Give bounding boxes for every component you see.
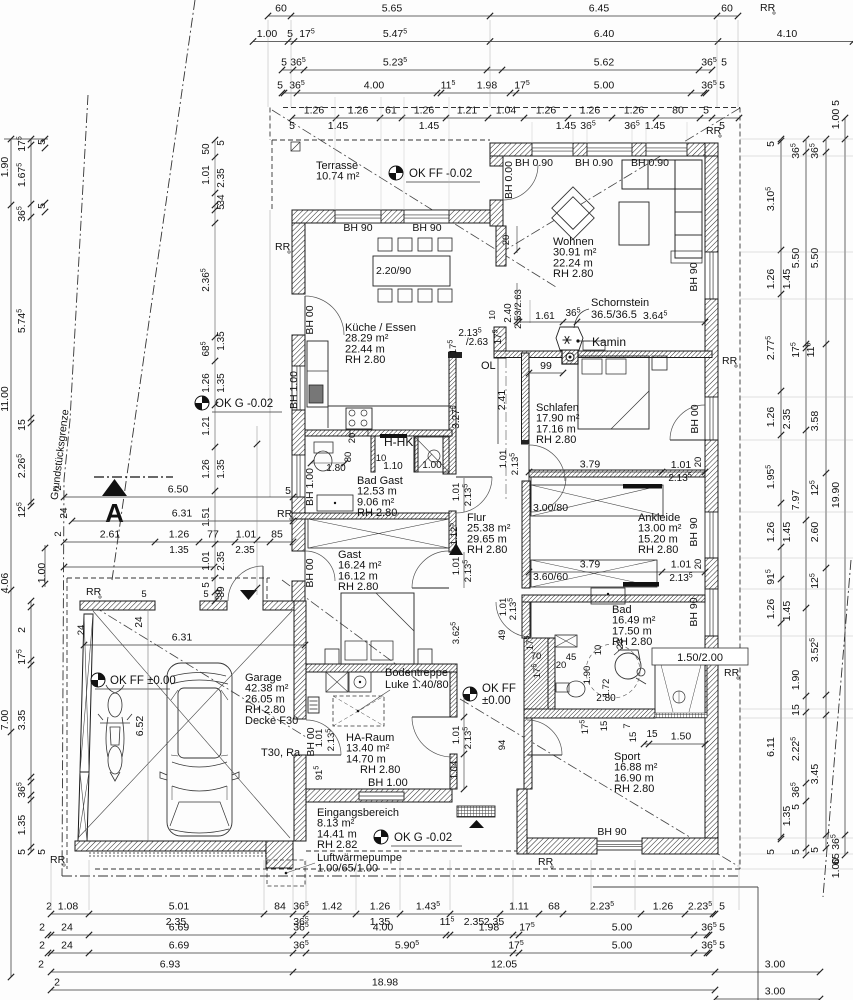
svg-text:24: 24: [59, 507, 70, 519]
svg-text:36.5/36.5: 36.5/36.5: [591, 309, 637, 321]
svg-text:3.58: 3.58: [809, 411, 821, 432]
svg-text:7.00: 7.00: [0, 710, 11, 731]
svg-text:3.35: 3.35: [16, 710, 28, 731]
svg-text:6.31: 6.31: [172, 632, 193, 644]
svg-text:28: 28: [615, 639, 626, 650]
svg-text:1.26: 1.26: [765, 599, 777, 620]
svg-text:6.40: 6.40: [594, 28, 615, 40]
svg-text:1.45: 1.45: [328, 120, 349, 132]
svg-text:1.00: 1.00: [257, 28, 278, 40]
svg-text:OK G -0.02: OK G -0.02: [394, 832, 452, 844]
svg-text:11.00: 11.00: [0, 386, 11, 412]
svg-text:80: 80: [343, 452, 354, 463]
svg-text:RH 2.80: RH 2.80: [338, 581, 378, 593]
svg-text:5: 5: [203, 589, 208, 600]
svg-text:1.21: 1.21: [201, 416, 212, 436]
svg-text:5: 5: [16, 849, 28, 855]
svg-text:20: 20: [693, 559, 704, 570]
svg-text:60: 60: [721, 3, 733, 15]
svg-text:1.42: 1.42: [322, 901, 343, 913]
svg-text:1.35: 1.35: [16, 815, 28, 836]
svg-text:19.90: 19.90: [830, 482, 842, 508]
svg-text:20: 20: [693, 457, 704, 468]
svg-text:1.45: 1.45: [781, 522, 793, 543]
svg-text:61: 61: [385, 105, 397, 117]
svg-text:1.21: 1.21: [457, 105, 478, 117]
svg-text:2: 2: [53, 531, 64, 536]
svg-text:1.26: 1.26: [765, 522, 777, 543]
svg-text:5: 5: [216, 140, 227, 146]
svg-text:5: 5: [287, 28, 293, 40]
svg-text:1.26: 1.26: [653, 901, 674, 913]
svg-text:1.04: 1.04: [449, 761, 460, 780]
svg-text:5: 5: [830, 100, 842, 106]
svg-text:68: 68: [548, 901, 560, 913]
svg-text:1.26: 1.26: [201, 459, 212, 479]
svg-text:6.69: 6.69: [169, 922, 190, 934]
svg-text:1.00: 1.00: [830, 109, 842, 130]
svg-text:5: 5: [721, 57, 727, 69]
svg-text:10.74 m²: 10.74 m²: [316, 171, 360, 183]
svg-text:20: 20: [501, 235, 512, 246]
svg-text:BH 00: BH 00: [689, 404, 701, 433]
svg-text:RH 2.82: RH 2.82: [317, 839, 357, 851]
svg-text:3.00/80: 3.00/80: [533, 502, 568, 514]
svg-text:3.79: 3.79: [580, 559, 601, 571]
svg-text:5: 5: [809, 847, 821, 853]
svg-text:2.60: 2.60: [809, 522, 821, 543]
svg-text:24: 24: [61, 940, 73, 952]
svg-text:2.35: 2.35: [781, 409, 793, 430]
svg-text:20: 20: [556, 660, 567, 671]
svg-text:4.00: 4.00: [373, 922, 394, 934]
svg-text:1.45: 1.45: [419, 120, 440, 132]
svg-text:3.00: 3.00: [765, 986, 786, 998]
svg-text:1.90: 1.90: [0, 157, 11, 178]
svg-text:BH 90: BH 90: [597, 826, 626, 838]
svg-text:77: 77: [207, 529, 219, 541]
svg-text:1.90: 1.90: [790, 670, 802, 691]
svg-text:50: 50: [201, 143, 212, 155]
svg-text:60: 60: [275, 3, 287, 15]
svg-text:1.35: 1.35: [216, 459, 227, 479]
svg-text:10: 10: [593, 645, 604, 656]
svg-text:1.00/65/1.00: 1.00/65/1.00: [317, 863, 378, 875]
svg-text:2.35: 2.35: [216, 551, 227, 571]
svg-text:1.35: 1.35: [169, 545, 189, 556]
svg-text:1.08: 1.08: [58, 901, 79, 913]
svg-text:OK G -0.02: OK G -0.02: [215, 398, 273, 410]
svg-text:15: 15: [16, 419, 28, 431]
svg-text:6.69: 6.69: [169, 940, 190, 952]
svg-text:1.26: 1.26: [765, 269, 777, 290]
svg-text:6.93: 6.93: [160, 959, 181, 971]
svg-text:5: 5: [719, 80, 725, 92]
svg-text:1.01: 1.01: [671, 559, 692, 571]
svg-text:5: 5: [216, 204, 227, 210]
svg-text:5: 5: [719, 901, 725, 913]
svg-text:2.80: 2.80: [596, 693, 616, 704]
svg-text:5.50: 5.50: [790, 248, 802, 269]
svg-text:1.11: 1.11: [509, 901, 529, 913]
svg-text:6.52: 6.52: [134, 716, 146, 737]
svg-text:5.00: 5.00: [612, 922, 633, 934]
svg-text:1.01: 1.01: [201, 551, 212, 571]
svg-text:5.50: 5.50: [809, 248, 821, 269]
svg-text:5: 5: [719, 940, 725, 952]
svg-text:1.00: 1.00: [36, 563, 48, 584]
svg-text:OK FF: OK FF: [482, 683, 516, 695]
svg-text:BH 1.00: BH 1.00: [304, 468, 316, 506]
svg-text:1.04: 1.04: [496, 105, 517, 117]
svg-text:BH 90: BH 90: [688, 262, 700, 291]
svg-text:A: A: [105, 498, 124, 528]
svg-text:1.35: 1.35: [216, 373, 227, 393]
svg-text:1.61: 1.61: [535, 311, 555, 322]
svg-text:Kamin: Kamin: [592, 335, 626, 349]
svg-text:1.01: 1.01: [236, 529, 257, 541]
svg-text:5.65: 5.65: [382, 3, 403, 15]
svg-text:70: 70: [531, 651, 542, 662]
svg-text:1.50: 1.50: [671, 731, 692, 743]
svg-text:2.61: 2.61: [100, 529, 121, 541]
svg-text:1.26: 1.26: [414, 105, 435, 117]
svg-text:5: 5: [277, 80, 283, 92]
svg-text:49: 49: [497, 630, 508, 641]
svg-text:3.00: 3.00: [765, 959, 786, 971]
svg-text:/2.63: /2.63: [466, 337, 489, 348]
svg-text:20: 20: [347, 433, 358, 444]
svg-text:5: 5: [201, 582, 212, 588]
svg-text:1.26: 1.26: [348, 105, 369, 117]
svg-text:RH 2.80: RH 2.80: [553, 268, 593, 280]
svg-text:RH 2.80: RH 2.80: [467, 544, 507, 556]
svg-text:24: 24: [61, 922, 73, 934]
svg-text:H-HK: H-HK: [384, 435, 413, 449]
svg-text:5: 5: [281, 57, 287, 69]
svg-text:1.35: 1.35: [216, 331, 227, 351]
svg-text:Decke F30: Decke F30: [245, 715, 298, 727]
svg-text:1.90: 1.90: [582, 666, 593, 685]
svg-text:Luke 1.40/80: Luke 1.40/80: [385, 679, 449, 691]
svg-text:5: 5: [765, 141, 777, 147]
svg-text:2: 2: [53, 485, 64, 490]
svg-text:7: 7: [622, 723, 633, 728]
svg-text:1.26: 1.26: [624, 105, 645, 117]
svg-text:1.01: 1.01: [451, 483, 462, 502]
svg-text:RH 2.80: RH 2.80: [360, 764, 400, 776]
svg-text:4.06: 4.06: [0, 573, 11, 594]
svg-text:1.26: 1.26: [304, 105, 325, 117]
svg-text:Bodentreppe: Bodentreppe: [385, 667, 448, 679]
svg-text:BH 0.90: BH 0.90: [515, 157, 553, 169]
svg-text:1.26: 1.26: [370, 901, 391, 913]
svg-text:OK FF -0.02: OK FF -0.02: [409, 168, 472, 180]
svg-text:1.01: 1.01: [201, 165, 212, 185]
svg-text:1.01: 1.01: [451, 557, 462, 576]
svg-text:18.98: 18.98: [372, 977, 398, 989]
svg-text:1.26: 1.26: [536, 105, 557, 117]
svg-text:10: 10: [487, 310, 497, 320]
svg-text:99: 99: [540, 360, 552, 372]
svg-text:94: 94: [497, 740, 508, 751]
svg-text:45: 45: [566, 652, 577, 663]
svg-text:1.51: 1.51: [201, 507, 212, 527]
svg-text:1.01: 1.01: [314, 729, 325, 748]
svg-text:1.01: 1.01: [498, 450, 509, 469]
svg-text:39: 39: [216, 586, 227, 598]
svg-text:5: 5: [790, 804, 802, 810]
svg-text:1.26: 1.26: [765, 407, 777, 428]
svg-text:5.00: 5.00: [594, 80, 615, 92]
svg-text:15: 15: [628, 732, 639, 743]
svg-text:5.62: 5.62: [594, 57, 615, 69]
svg-text:2.35: 2.35: [216, 168, 227, 188]
svg-text:BH 90: BH 90: [688, 517, 700, 546]
svg-text:2: 2: [38, 959, 44, 971]
svg-text:BH 0.90: BH 0.90: [631, 157, 669, 169]
svg-text:15: 15: [790, 704, 802, 716]
svg-text:1.10: 1.10: [383, 461, 403, 472]
svg-text:BH 0.00: BH 0.00: [503, 161, 515, 199]
svg-text:BH 00: BH 00: [304, 558, 316, 587]
svg-text:3.60/60: 3.60/60: [533, 571, 568, 583]
svg-text:1.26: 1.26: [169, 529, 190, 541]
svg-text:±0.00: ±0.00: [482, 695, 511, 707]
svg-text:5: 5: [289, 120, 295, 132]
svg-text:BH 90: BH 90: [343, 222, 372, 234]
svg-text:6.45: 6.45: [589, 3, 610, 15]
svg-text:3.79: 3.79: [580, 459, 601, 471]
svg-text:5: 5: [719, 120, 725, 132]
svg-text:5: 5: [36, 849, 48, 855]
svg-text:6.31: 6.31: [172, 508, 193, 520]
svg-text:12.05: 12.05: [491, 959, 517, 971]
svg-text:4.10: 4.10: [777, 28, 798, 40]
svg-text:1.01: 1.01: [451, 726, 462, 745]
svg-text:2.35: 2.35: [235, 545, 255, 556]
svg-text:1.45: 1.45: [556, 120, 577, 132]
svg-text:RH 2.80: RH 2.80: [614, 783, 654, 795]
svg-text:84: 84: [274, 901, 286, 913]
svg-text:Schornstein: Schornstein: [591, 297, 649, 309]
svg-text:OK FF ±0.00: OK FF ±0.00: [110, 675, 176, 687]
svg-text:80: 80: [672, 105, 684, 117]
svg-text:1.00: 1.00: [422, 460, 442, 471]
svg-text:RH 2.80: RH 2.80: [357, 507, 397, 519]
svg-text:2.20/90: 2.20/90: [376, 265, 411, 277]
svg-text:5.01: 5.01: [169, 901, 190, 913]
svg-text:BH 90: BH 90: [688, 597, 700, 626]
svg-text:BH 00: BH 00: [304, 305, 316, 334]
svg-text:RH 2.80: RH 2.80: [638, 544, 678, 556]
svg-text:1.50/2.00: 1.50/2.00: [677, 652, 723, 664]
svg-text:65: 65: [830, 853, 842, 865]
svg-text:T30, Ra: T30, Ra: [261, 747, 301, 759]
svg-text:BH 1.00: BH 1.00: [368, 777, 408, 789]
svg-text:24: 24: [76, 625, 87, 636]
svg-text:2: 2: [39, 940, 45, 952]
svg-text:6.11: 6.11: [765, 737, 777, 757]
svg-text:RH 2.80: RH 2.80: [536, 434, 576, 446]
svg-text:BH 1.00: BH 1.00: [288, 371, 300, 409]
svg-text:5: 5: [703, 105, 709, 117]
svg-text:1.45: 1.45: [781, 601, 793, 622]
svg-text:1.98: 1.98: [477, 80, 498, 92]
svg-text:3.45: 3.45: [809, 764, 821, 785]
svg-text:5: 5: [285, 485, 291, 497]
svg-text:7.97: 7.97: [790, 490, 802, 511]
svg-text:1.01: 1.01: [671, 459, 692, 471]
svg-text:15: 15: [599, 721, 610, 732]
svg-text:24: 24: [134, 616, 145, 628]
svg-text:4.00: 4.00: [364, 80, 385, 92]
svg-text:5: 5: [719, 922, 725, 934]
svg-text:5: 5: [141, 589, 146, 600]
svg-text:34: 34: [216, 194, 227, 206]
svg-text:1.45: 1.45: [645, 120, 666, 132]
svg-text:2: 2: [39, 922, 45, 934]
svg-text:OL: OL: [481, 360, 496, 372]
svg-text:2: 2: [54, 977, 60, 989]
svg-text:1.45: 1.45: [781, 269, 793, 290]
svg-text:BH 0.90: BH 0.90: [575, 157, 613, 169]
svg-text:1.26: 1.26: [580, 105, 601, 117]
svg-text:85: 85: [271, 529, 283, 541]
svg-text:BH 90: BH 90: [412, 222, 441, 234]
svg-text:1.26: 1.26: [201, 373, 212, 393]
svg-text:2: 2: [16, 627, 28, 633]
svg-text:RH 2.80: RH 2.80: [345, 354, 385, 366]
svg-text:1.98: 1.98: [479, 922, 500, 934]
svg-text:15: 15: [646, 729, 658, 740]
svg-text:6.50: 6.50: [168, 484, 189, 496]
svg-text:5.00: 5.00: [612, 940, 633, 952]
